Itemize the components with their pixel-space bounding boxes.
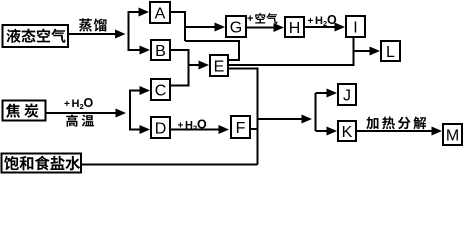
svg-text:H: H: [315, 15, 323, 27]
box H: [285, 17, 304, 37]
wire branch to K: [316, 130, 330, 132]
box A: [150, 2, 170, 23]
svg-text:+: +: [247, 13, 253, 25]
arrowhead at J/K branch: [302, 115, 313, 124]
arrowhead into L: [370, 47, 381, 56]
text 液态空气: [6, 29, 65, 43]
svg-text:G: G: [230, 19, 242, 36]
box G: [226, 16, 246, 37]
svg-text:C: C: [155, 82, 167, 99]
arrowhead into A: [139, 8, 150, 17]
arrowhead into J: [327, 89, 338, 98]
arrowhead into C/D branch: [116, 109, 127, 118]
svg-text:O: O: [327, 13, 337, 27]
wire liquid air to distillation branch: [68, 33, 117, 35]
svg-text:O: O: [197, 118, 207, 132]
arrowhead into A/B branch: [115, 30, 126, 39]
wire G to H: [246, 27, 275, 29]
arrowhead into M: [432, 127, 443, 136]
source box 饱和食盐水 (saturated brine): [2, 154, 82, 173]
wire coke output: [46, 112, 118, 114]
text 饱和食盐水: [4, 156, 80, 171]
wire junction feeder to J/K branch: [258, 118, 304, 120]
svg-text:H: H: [289, 20, 301, 37]
arrowhead into H: [274, 23, 285, 32]
branch vertical to A and B: [128, 12, 130, 50]
box L: [381, 41, 400, 61]
box C: [151, 79, 170, 100]
wire branch to C: [129, 90, 142, 92]
box K: [338, 121, 356, 141]
wire junction to G: [185, 26, 217, 28]
source box 液态空气 (liquid air): [3, 25, 69, 47]
wire junction to L: [354, 50, 373, 52]
arrowhead into G: [215, 23, 226, 32]
arrowhead into B: [140, 46, 151, 55]
svg-text:O: O: [84, 96, 94, 110]
text 焦炭: [6, 103, 39, 117]
svg-text:E: E: [214, 58, 225, 75]
wire E top output up and left to junction with A: [185, 41, 239, 60]
box F: [231, 116, 250, 138]
svg-text:+: +: [178, 121, 184, 132]
label 蒸馏 (distillation): [79, 18, 107, 31]
arrowhead into K: [327, 127, 338, 136]
svg-text:+: +: [64, 99, 70, 110]
svg-text:M: M: [446, 127, 459, 144]
wire E middle output to I junction: [228, 64, 354, 66]
wire K to M: [356, 130, 433, 132]
svg-text:+: +: [308, 16, 314, 27]
wire brine output: [81, 164, 258, 166]
box B: [151, 40, 170, 60]
wire B and C outputs merge: [170, 50, 189, 86]
label 高温 (high temperature): [66, 114, 94, 126]
box J: [338, 84, 356, 105]
label 空气 of +空气: [255, 13, 277, 24]
arrowhead into E: [199, 61, 210, 70]
box E: [210, 55, 228, 76]
arrowhead into I: [335, 23, 346, 32]
arrowhead into F: [219, 125, 230, 134]
wire branch to A: [128, 11, 142, 13]
svg-text:I: I: [353, 19, 357, 36]
label 加热分解 (decompose by heating): [366, 117, 426, 130]
wire E bottom output right and down to brine junction: [228, 69, 258, 165]
wire branch to D: [129, 129, 142, 131]
svg-text:A: A: [155, 5, 166, 22]
wire merge to E: [189, 64, 202, 66]
branch vertical to C and D: [129, 91, 131, 130]
branch vertical to J and K: [315, 93, 317, 131]
source box 焦炭 (coke): [3, 101, 46, 121]
svg-text:B: B: [155, 43, 166, 60]
box I: [346, 16, 365, 37]
wire branch to J: [316, 92, 330, 94]
wire I bottom down to junction: [353, 37, 355, 66]
svg-text:L: L: [386, 44, 395, 61]
svg-text:F: F: [236, 120, 246, 137]
wire D to F: [170, 129, 221, 131]
svg-text:H: H: [72, 98, 80, 110]
svg-text:J: J: [343, 87, 351, 104]
wire H to I: [304, 26, 336, 28]
wire branch to B: [128, 49, 142, 51]
svg-text:H: H: [185, 120, 193, 132]
wire F link to vertical: [250, 128, 258, 130]
svg-text:D: D: [155, 120, 167, 137]
wire A output to junction: [170, 12, 185, 41]
arrowhead into D: [140, 125, 151, 134]
box M: [443, 124, 462, 145]
svg-text:K: K: [342, 124, 353, 141]
arrowhead into C: [140, 86, 151, 95]
box D: [151, 117, 170, 138]
